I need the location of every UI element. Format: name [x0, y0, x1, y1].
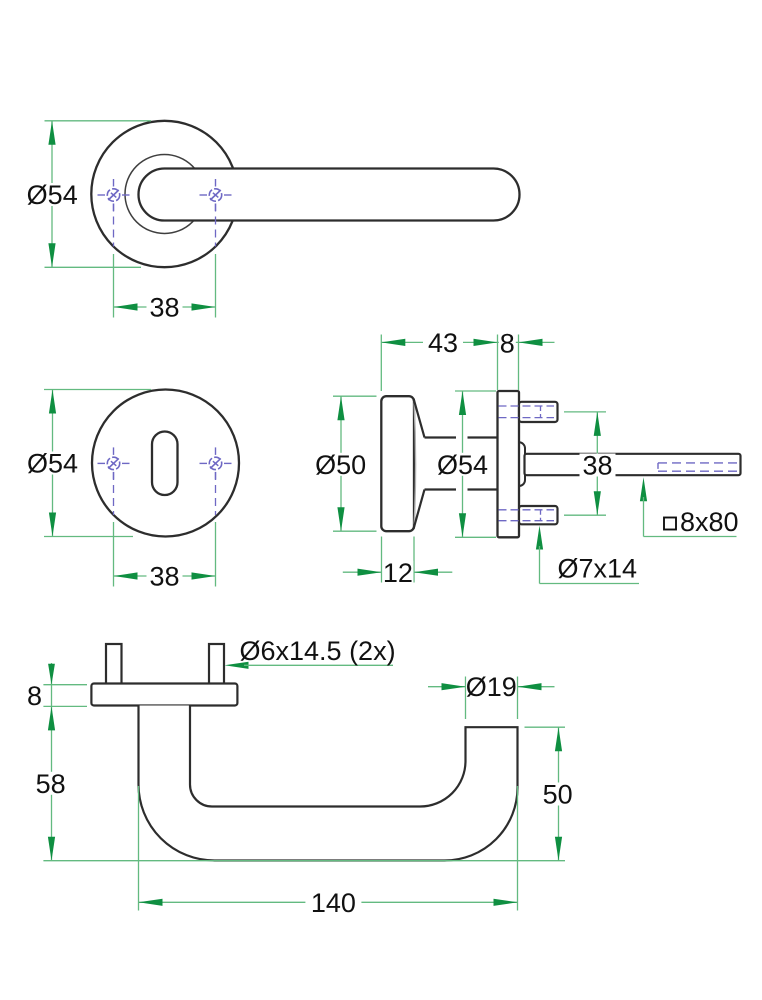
neck line gaps at dim line [456, 436, 468, 493]
centerline left screw drop (key rose) [113, 472, 115, 515]
centerline right screw drop [215, 204, 217, 247]
svg-text:58: 58 [36, 769, 66, 799]
dimension Ø54 (top rose) [26, 121, 151, 267]
screw top hidden lines [499, 406, 555, 418]
dimension Ø54 (key rose) [27, 390, 152, 537]
svg-text:Ø7x14: Ø7x14 [558, 554, 638, 584]
svg-text:38: 38 [149, 293, 179, 323]
rose (side view) [498, 391, 520, 537]
svg-text:12: 12 [383, 558, 413, 588]
svg-text:Ø54: Ø54 [27, 449, 78, 479]
dimension 50 (lever height) [525, 727, 576, 861]
neck upper line [425, 436, 498, 438]
dimension 140 (lever length) [139, 786, 518, 918]
dimension 38 (top rose screw spacing) [114, 254, 216, 323]
leader Ø7x14 (screw size) [536, 526, 639, 584]
lever handle (front view) [139, 169, 520, 221]
svg-text:Ø19: Ø19 [466, 672, 517, 702]
spindle (side view) [525, 454, 741, 475]
fixing pin right [209, 644, 224, 684]
dimension Ø19 (lever tube) [428, 672, 555, 719]
screw top (side view) [519, 402, 558, 422]
svg-text:Ø6x14.5 (2x): Ø6x14.5 (2x) [240, 636, 396, 666]
spindle square hole hidden lines [658, 463, 739, 471]
dimension 38 (side view screw spacing) [564, 412, 616, 515]
screw hole mark right (top rose) [200, 179, 232, 211]
fixing pin left [106, 644, 122, 684]
keyhole slot [152, 432, 178, 496]
hub behind rose [508, 442, 525, 486]
svg-text:Ø54: Ø54 [437, 450, 488, 480]
leader Ø6x14.5 (2x) pins [225, 636, 396, 669]
svg-text:Ø50: Ø50 [315, 450, 366, 480]
dimension Ø50 (grip) [314, 396, 376, 531]
svg-text:50: 50 [543, 780, 573, 810]
rose plate (front view, top) [91, 121, 237, 267]
key rose plate (front view) [92, 390, 239, 537]
screw hole mark right (key rose) [200, 447, 232, 479]
rose plate (side profile) [91, 684, 237, 706]
centerline left screw drop [113, 204, 115, 247]
rose collar circle [125, 155, 204, 234]
handle grip (side view) [381, 396, 414, 531]
dimension 38 (key rose screw spacing) [114, 522, 216, 592]
dimension 12 (grip thickness) [343, 537, 453, 588]
dimension Ø54 (side view rose) [436, 391, 496, 537]
screw bottom (side view) [519, 506, 558, 524]
svg-text:Ø54: Ø54 [27, 180, 78, 210]
screw bottom hidden lines [499, 510, 555, 521]
baseline extension (bottom) [43, 860, 565, 862]
centerline right screw drop (key rose) [215, 472, 217, 515]
neck cone lower edge [414, 490, 425, 529]
neck cone upper edge [414, 399, 425, 438]
svg-text:140: 140 [311, 888, 356, 918]
grip face edge (ellipse arc) [414, 401, 416, 529]
dimensions 8 and 58 (left) [27, 663, 87, 861]
screw hole mark left (key rose) [98, 447, 130, 479]
svg-text:8: 8 [500, 329, 515, 359]
neck lower line [425, 488, 498, 490]
svg-text:38: 38 [149, 562, 179, 592]
lever body (side profile) [139, 706, 518, 861]
svg-text:8: 8 [27, 681, 42, 711]
svg-text:38: 38 [582, 451, 612, 481]
svg-text:43: 43 [428, 328, 458, 358]
dimensions 43 and 8 (side view top) [381, 328, 554, 391]
leader □8x80 (spindle size) [640, 477, 739, 537]
svg-text:8x80: 8x80 [680, 507, 739, 537]
screw hole mark left (top rose) [98, 179, 130, 211]
